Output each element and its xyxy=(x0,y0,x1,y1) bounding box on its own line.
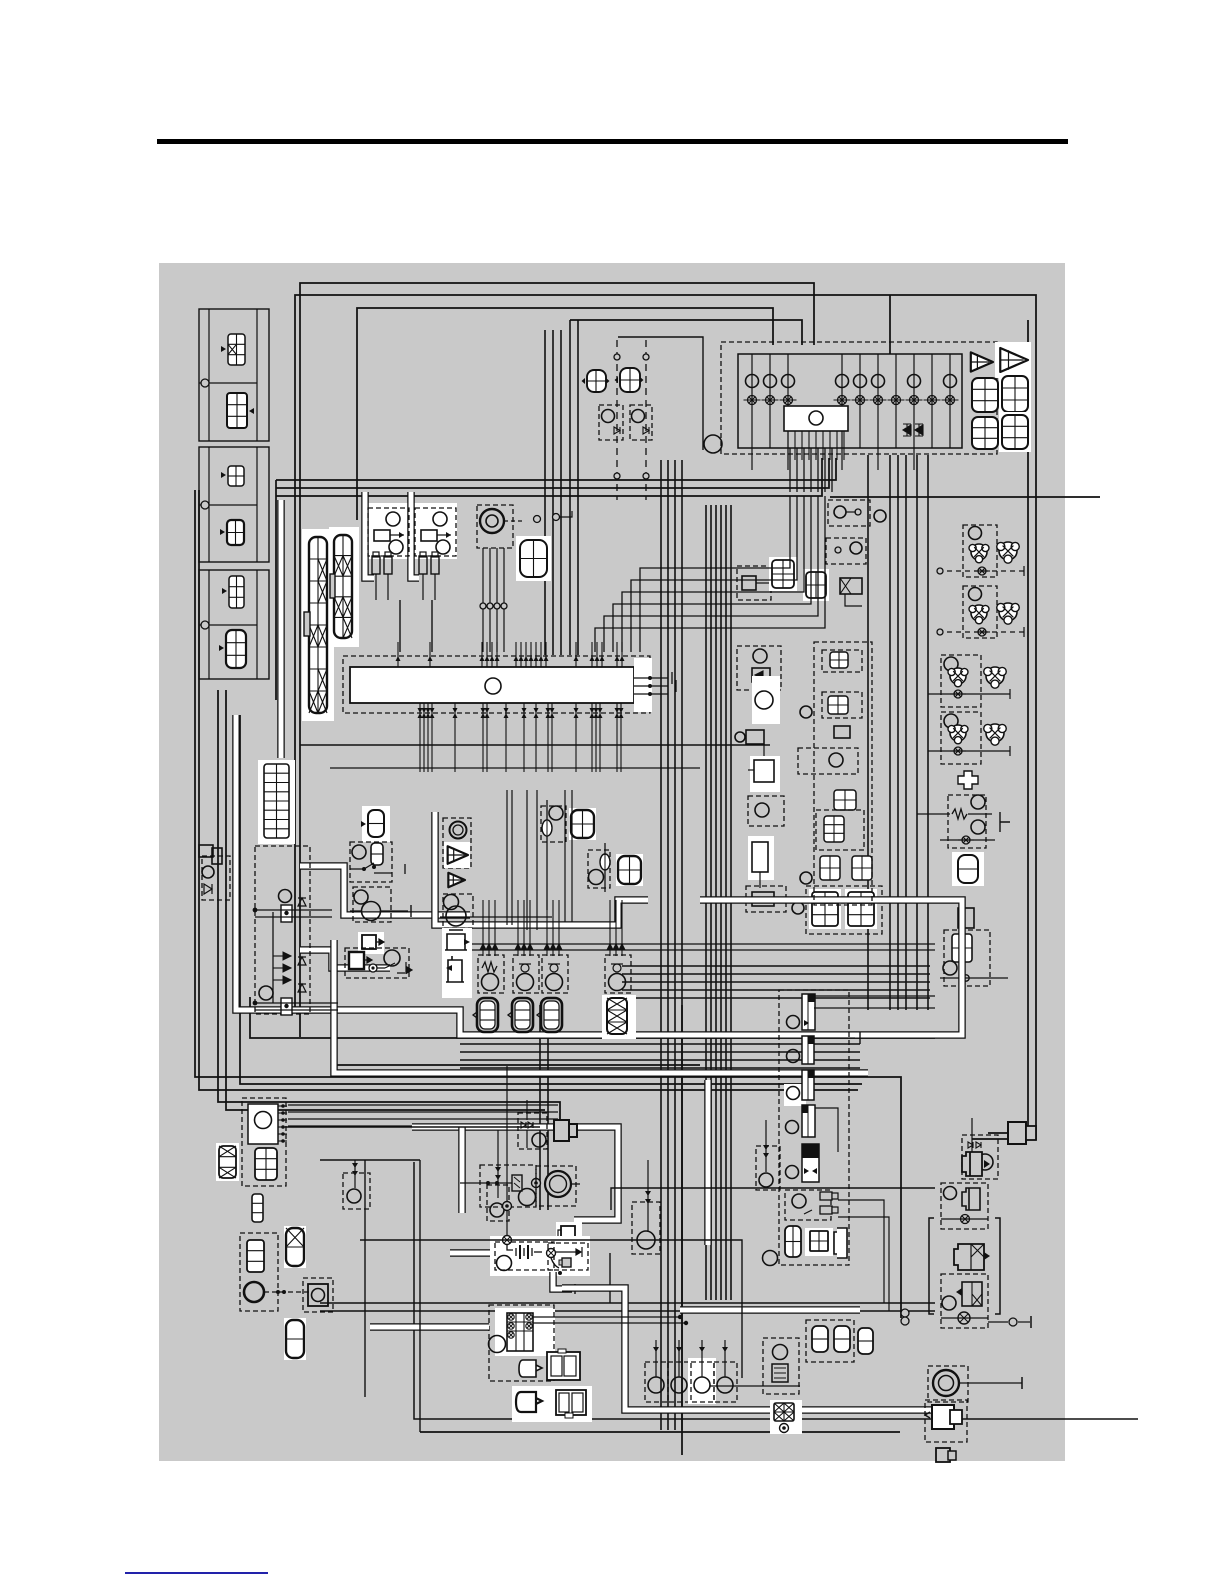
diode sym xyxy=(204,884,212,894)
ignition coil connector xyxy=(809,889,841,929)
fuse slot wire xyxy=(949,354,951,448)
fuse symbol xyxy=(762,396,779,405)
tick xyxy=(1023,627,1025,637)
small dashed box xyxy=(798,748,858,774)
connector 6P xyxy=(972,378,998,412)
diode xyxy=(283,964,291,972)
bottom wire xyxy=(420,1431,900,1433)
coil circle xyxy=(694,1377,710,1393)
headlight dashed wire xyxy=(645,340,647,500)
switch cluster dashed box xyxy=(963,586,997,638)
wire xyxy=(255,909,332,911)
relay arrowhead xyxy=(446,532,451,538)
diode pair xyxy=(968,1142,981,1148)
wire pair xyxy=(547,1005,549,1210)
ECU pin bottom xyxy=(523,703,525,772)
connector oval xyxy=(284,1226,306,1268)
pin arrow xyxy=(524,656,529,661)
ECU pin bottom xyxy=(535,703,537,772)
pin arrow xyxy=(485,708,490,718)
ECU pin top xyxy=(525,642,527,667)
connector halo xyxy=(556,1222,582,1248)
circle xyxy=(971,820,985,834)
left switch dashed box xyxy=(242,1098,286,1186)
switch dashed box xyxy=(303,1278,333,1312)
pin arrow xyxy=(514,656,519,661)
circle xyxy=(354,890,368,904)
circle xyxy=(589,870,604,885)
fuse circle xyxy=(836,375,849,388)
wire xyxy=(506,790,508,925)
relay arrowhead xyxy=(399,532,404,538)
wire xyxy=(526,1100,528,1120)
circle xyxy=(773,1345,788,1360)
starter relay halo xyxy=(495,1308,555,1356)
wire xyxy=(763,744,765,770)
injector dashed box xyxy=(542,955,568,993)
wire xyxy=(938,570,1024,572)
legend circle xyxy=(201,379,209,387)
ECU pin bottom xyxy=(547,703,549,772)
small dashed box xyxy=(822,650,862,672)
battery circle xyxy=(497,1256,512,1271)
wire below ECU 2 xyxy=(330,767,700,769)
connector 6P xyxy=(999,373,1031,415)
tick xyxy=(1009,746,1011,756)
headlight dashed wire xyxy=(616,340,618,500)
conn arrow xyxy=(361,821,366,827)
injector drop wires xyxy=(621,900,623,944)
wire xyxy=(940,839,995,841)
bulb dashed box xyxy=(599,405,623,440)
wire xyxy=(765,1120,767,1172)
pin tick xyxy=(278,1126,287,1128)
wire xyxy=(759,872,761,888)
relay pin wire xyxy=(822,431,824,460)
wire xyxy=(710,1385,800,1387)
small box xyxy=(958,908,974,928)
ECU right pin halo xyxy=(634,658,652,712)
connector xyxy=(362,935,376,949)
tick xyxy=(1009,689,1011,699)
white-cased harness right xyxy=(562,1288,935,1410)
wire xyxy=(941,1317,988,1319)
pin tick xyxy=(278,1105,287,1107)
junction xyxy=(684,1321,688,1325)
wire long xyxy=(250,997,935,1038)
ECU pin bottom xyxy=(595,703,597,772)
pin dot xyxy=(281,1111,285,1115)
junction xyxy=(253,1001,258,1006)
panel tick xyxy=(787,448,789,470)
wire xyxy=(560,511,572,517)
arrow down xyxy=(527,944,533,956)
sensor dashed box xyxy=(588,850,610,888)
arrow xyxy=(763,1145,769,1150)
circle xyxy=(549,806,563,820)
wire xyxy=(681,1120,683,1240)
ignition coil dashed box xyxy=(645,1362,668,1402)
circle xyxy=(202,866,214,878)
chain circle 1 xyxy=(787,1016,800,1029)
wire xyxy=(511,790,513,925)
relay circle xyxy=(809,411,823,425)
bracket2 xyxy=(1000,812,1010,832)
cluster fan wires xyxy=(288,1104,558,1106)
ECU pin bottom xyxy=(599,703,601,772)
fuse symbol xyxy=(834,396,851,405)
wire xyxy=(526,1130,528,1148)
relay arrow xyxy=(390,534,404,536)
pin arrow xyxy=(594,708,599,718)
component xyxy=(772,1364,788,1382)
triangle connector xyxy=(971,352,993,371)
circle xyxy=(850,542,862,554)
fuse slot wire xyxy=(841,354,843,448)
main relay white box xyxy=(784,406,848,431)
ring terminal xyxy=(503,1238,512,1247)
pin arrow xyxy=(422,708,427,718)
fuse symbol xyxy=(924,396,941,405)
switch connector xyxy=(984,724,1007,745)
wire xyxy=(552,330,554,655)
injector valve xyxy=(613,964,621,972)
small oval sensor xyxy=(542,820,552,836)
wire xyxy=(846,511,856,513)
center vertical bundle xyxy=(660,460,662,1430)
connector xyxy=(952,934,972,962)
coil circle xyxy=(671,1377,687,1393)
double box conn 2 xyxy=(556,1390,586,1418)
pin tick xyxy=(278,1140,287,1142)
battery halo xyxy=(490,1236,590,1276)
ring terminal xyxy=(369,964,377,972)
wire xyxy=(255,1002,338,1004)
fuse slot wire xyxy=(877,354,879,448)
bracket right xyxy=(995,1218,1000,1314)
starter relay grid xyxy=(507,1313,533,1351)
wire xyxy=(960,1382,1022,1384)
bracket xyxy=(1021,1377,1023,1389)
coil wire xyxy=(724,1340,726,1377)
pin arrow xyxy=(495,656,500,661)
wire xyxy=(938,631,1024,633)
wire xyxy=(681,1005,683,1455)
left wire long xyxy=(240,715,862,1084)
splice connector xyxy=(281,905,292,922)
fuse cap xyxy=(385,552,391,557)
fuse symbol xyxy=(942,396,959,405)
connector 4P xyxy=(516,536,551,581)
sensor body xyxy=(754,760,774,782)
arrow bar xyxy=(576,1247,582,1257)
legend circle xyxy=(201,501,209,509)
fuse symbol xyxy=(950,690,966,698)
connector grid xyxy=(810,1231,828,1251)
diode xyxy=(283,952,291,960)
wire to fuse panel xyxy=(889,295,891,354)
chain circle 2 xyxy=(787,1050,800,1063)
white-cased main harness xyxy=(236,715,962,1035)
fuse output wires xyxy=(817,448,819,492)
fuse panel dashed box xyxy=(721,342,997,454)
fuse slot wire xyxy=(913,354,915,448)
terminal xyxy=(835,547,841,553)
right vertical bundle xyxy=(897,455,899,1010)
dashed box xyxy=(487,1185,509,1221)
panel tick xyxy=(751,448,753,470)
connector 4P xyxy=(569,808,596,840)
arrow xyxy=(352,1163,358,1168)
wire harness top loop xyxy=(300,283,814,1037)
ignition coil connector xyxy=(845,889,877,929)
horizontal bundle xyxy=(622,965,930,967)
ignition switch ring xyxy=(480,509,504,533)
arrow down xyxy=(619,944,625,956)
horizontal bundle xyxy=(622,973,930,975)
arrow xyxy=(699,1347,705,1352)
connector symbol xyxy=(228,466,244,486)
wire xyxy=(333,1064,700,1066)
wire xyxy=(748,769,754,771)
injector circle xyxy=(517,974,534,991)
ECU pin top xyxy=(515,642,517,667)
double circle sensor xyxy=(450,822,467,839)
wire xyxy=(255,1009,338,1011)
terminal xyxy=(614,354,620,360)
white-cased wire xyxy=(300,950,390,968)
wire xyxy=(1018,1321,1030,1323)
arrow xyxy=(676,1347,682,1352)
connector 3P X xyxy=(607,998,627,1034)
injector drop wires xyxy=(552,900,554,944)
horizontal bundle right xyxy=(460,1051,860,1053)
ECU pin top xyxy=(535,642,537,667)
double ring symbol xyxy=(958,1312,970,1324)
wire xyxy=(419,1160,421,1432)
wire xyxy=(272,912,274,1003)
ECU pin top xyxy=(397,642,399,667)
coil circle xyxy=(717,1377,733,1393)
ECU pin bottom xyxy=(620,703,622,772)
diode glyph xyxy=(614,427,620,434)
relay pin wire xyxy=(843,431,845,460)
dashed box xyxy=(350,842,392,882)
wire xyxy=(255,916,332,918)
circle xyxy=(977,1154,993,1170)
relay dashed box xyxy=(415,508,456,556)
right vertical bundle xyxy=(867,455,869,1010)
connector xyxy=(852,856,872,880)
pin arrow xyxy=(430,708,435,718)
coil wire xyxy=(678,1340,680,1377)
ECU pin top xyxy=(491,642,493,667)
connector 3P xyxy=(247,1240,264,1272)
white-cased elbow xyxy=(411,492,419,578)
wire xyxy=(940,977,1008,979)
injector connector xyxy=(473,998,498,1032)
connector 6P xyxy=(972,417,998,449)
fuse symbol xyxy=(974,628,990,636)
double small circles xyxy=(901,1309,909,1317)
legend box xyxy=(199,447,269,562)
connector xyxy=(830,652,848,668)
ECU right ticks xyxy=(672,672,676,692)
circle xyxy=(792,1194,806,1208)
wire xyxy=(618,337,703,450)
relay ring xyxy=(526,1323,532,1329)
fuse circle xyxy=(944,375,957,388)
small dashed box xyxy=(828,500,870,526)
arrow down xyxy=(480,944,486,956)
mid-right dashed column xyxy=(814,642,872,905)
wire right inner boundary xyxy=(988,320,1028,1133)
coil wire xyxy=(655,1340,657,1377)
wire bundle mid xyxy=(276,458,822,496)
panel tick xyxy=(877,448,879,470)
relay pin wire xyxy=(836,431,838,460)
small dashed box xyxy=(748,796,784,826)
ECU pin top xyxy=(601,642,603,667)
diode box dashed xyxy=(255,846,310,1014)
resistor squiggle xyxy=(482,962,497,972)
injector dashed box xyxy=(478,955,504,993)
switch connector xyxy=(984,667,1007,688)
wire xyxy=(814,1007,935,1009)
arrow xyxy=(722,1347,728,1352)
splice xyxy=(501,603,507,609)
pin tick xyxy=(278,1133,287,1135)
wire bundle mid xyxy=(276,458,836,480)
small component xyxy=(936,1448,950,1462)
wire xyxy=(264,1291,310,1293)
flasher body xyxy=(742,576,756,590)
relay ring xyxy=(508,1314,514,1320)
relay circle xyxy=(386,512,400,526)
horizontal bundle right xyxy=(460,1059,860,1061)
pin dot xyxy=(648,676,652,680)
small dashed box xyxy=(826,538,866,564)
ECU pin bottom xyxy=(423,703,425,772)
left margin wire long xyxy=(195,490,901,1318)
pin arrow xyxy=(619,708,624,718)
ECU pin bottom xyxy=(505,703,507,772)
wire xyxy=(497,1130,499,1160)
chain item 4 xyxy=(802,1105,815,1137)
ECU pin bottom xyxy=(616,703,618,772)
right vertical bundle xyxy=(889,455,891,1010)
wire bundle mid xyxy=(276,458,829,488)
arrowhead xyxy=(984,1160,990,1168)
fuse symbol xyxy=(888,396,905,405)
connector halo xyxy=(358,932,384,954)
legend divider xyxy=(199,504,257,506)
right vertical bundle xyxy=(927,455,929,1010)
ECU pin top xyxy=(530,642,532,667)
fuse body xyxy=(372,556,380,574)
fuse symbol xyxy=(957,1215,974,1224)
ignition coil dashed box xyxy=(691,1362,714,1402)
tail dashed box 2 xyxy=(941,1274,988,1328)
left margin wire long xyxy=(199,490,858,1090)
ECU pin bottom xyxy=(419,703,421,772)
fuse lead xyxy=(387,574,389,600)
wire xyxy=(941,1218,988,1220)
center vertical bundle xyxy=(674,460,676,1430)
plug boxes2 xyxy=(1008,1122,1026,1144)
switch circle xyxy=(944,657,958,671)
small box xyxy=(212,848,222,864)
injector connector xyxy=(537,998,562,1032)
ECU pin bottom xyxy=(551,703,553,772)
ECU pin top xyxy=(591,642,593,667)
connector 6P xyxy=(255,1148,277,1180)
fuse cap xyxy=(420,552,426,557)
relay circle xyxy=(433,512,447,526)
tail X connector mid xyxy=(954,1244,990,1270)
circle xyxy=(944,1187,957,1200)
connector symbol xyxy=(228,334,245,365)
pin arrow xyxy=(534,708,539,718)
junction xyxy=(362,867,366,871)
switch cluster dashed box xyxy=(963,525,997,577)
fuse slot wire xyxy=(859,354,861,448)
fuse lead xyxy=(375,574,377,600)
left dashed box xyxy=(202,856,230,900)
chain item 3 xyxy=(802,1070,814,1100)
main switch double circle xyxy=(545,1171,571,1197)
connector symbol xyxy=(226,630,246,668)
wire xyxy=(364,1160,366,1397)
plug pair xyxy=(820,1192,832,1200)
circle xyxy=(800,872,812,884)
pin dot xyxy=(281,1139,285,1143)
fuse slot wire xyxy=(931,354,933,448)
bulb circle xyxy=(602,410,615,423)
relay white halo 2 xyxy=(413,503,457,559)
connector xyxy=(812,1326,828,1352)
wire pair xyxy=(539,1005,541,1210)
circle xyxy=(943,961,957,975)
junction xyxy=(372,865,376,869)
pin arrow xyxy=(529,656,534,661)
staircase wire to ECU xyxy=(622,496,804,652)
arrowhead xyxy=(464,939,470,945)
junction xyxy=(495,1181,499,1185)
switch connector xyxy=(969,605,989,624)
wire xyxy=(845,594,862,606)
sensor white patch xyxy=(752,676,780,724)
pin arrow xyxy=(615,656,620,661)
wire xyxy=(350,910,361,912)
relay coil xyxy=(421,530,437,541)
tick xyxy=(574,1284,576,1294)
injector drop wires xyxy=(615,900,617,944)
ECU pin top xyxy=(596,642,598,667)
wire xyxy=(497,1160,499,1198)
arrow xyxy=(495,1175,501,1180)
wire xyxy=(440,916,552,918)
switch xyxy=(377,962,412,974)
fuse output wires xyxy=(796,448,798,492)
ECU dashed outline xyxy=(343,656,650,713)
injector drop wires xyxy=(558,900,560,944)
terminal xyxy=(614,473,620,479)
wire xyxy=(273,967,283,969)
wire xyxy=(533,1322,686,1324)
splice xyxy=(480,603,486,609)
wire xyxy=(570,320,802,345)
